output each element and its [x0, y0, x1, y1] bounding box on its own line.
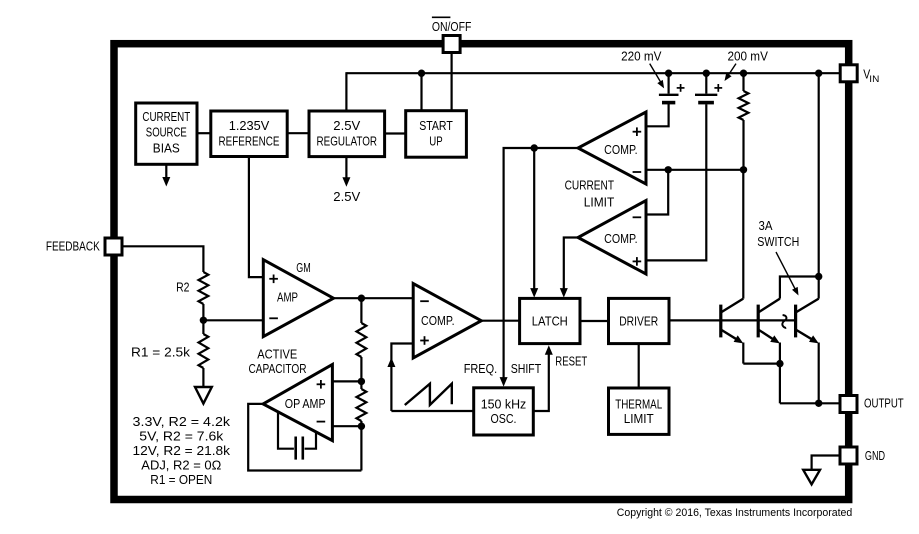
- wire PWM COMP output to LATCH: [481, 320, 519, 322]
- node opamp-minus junction: [358, 423, 365, 430]
- net RESET from OSC to LATCH: [533, 351, 549, 411]
- arrowhead FREQ SHIFT into OSC: [500, 377, 508, 387]
- wire Q1 collector to sense junction: [742, 170, 744, 299]
- svg-text:SOURCE: SOURCE: [146, 126, 187, 140]
- resistor compensation lower: [357, 389, 367, 421]
- wire lower COMP output to LATCH: [564, 238, 578, 292]
- wire rail to sense resistor: [742, 73, 744, 91]
- svg-text:IN: IN: [869, 74, 879, 85]
- svg-text:ON/OFF: ON/OFF: [432, 20, 472, 34]
- callout arrow 220 mV: [650, 64, 662, 84]
- svg-text:220 mV: 220 mV: [621, 49, 662, 63]
- wire 1.235V REFERENCE to 2.5V REGULATOR: [287, 132, 309, 134]
- lower COMP plus input mark: [633, 257, 642, 266]
- wire Q2 collector up and to VIN riser: [780, 277, 819, 299]
- net FREQ SHIFT from current-limit to OSC: [504, 148, 535, 379]
- wire FEEDBACK pin to R2: [122, 246, 203, 272]
- svg-text:OSC.: OSC.: [491, 412, 517, 426]
- svg-text:2.5V: 2.5V: [333, 119, 361, 133]
- svg-text:SHIFT: SHIFT: [511, 362, 542, 376]
- svg-text:COMP.: COMP.: [604, 143, 638, 157]
- arrowhead lower COMP into LATCH: [560, 288, 568, 298]
- svg-text:1.235V: 1.235V: [229, 119, 270, 133]
- svg-text:OP AMP: OP AMP: [285, 397, 326, 411]
- wire Q3 emitter down to output bus: [818, 343, 820, 404]
- wire Q1 emitter down: [742, 343, 744, 364]
- block 1.235V REFERENCE: [211, 111, 287, 157]
- svg-text:ACTIVE: ACTIVE: [257, 348, 297, 362]
- transistor Q2 base bar: [757, 305, 760, 338]
- arrowhead on oscillator ramp wire: [387, 358, 395, 368]
- arrowhead RESET into LATCH: [545, 345, 553, 355]
- block 150 kHz OSC.: [474, 388, 534, 435]
- svg-text:R1 = OPEN: R1 = OPEN: [150, 473, 212, 487]
- wire emitter bus Q1-Q2: [743, 363, 780, 365]
- pin GND (square pad): [840, 447, 857, 464]
- arrowhead upper COMP into LATCH: [530, 288, 538, 298]
- svg-text:CURRENT: CURRENT: [565, 179, 615, 193]
- block LATCH: [520, 298, 580, 343]
- block DRIVER: [609, 298, 670, 343]
- transistor Q1 base bar: [719, 305, 722, 338]
- wire LATCH to DRIVER: [580, 320, 609, 322]
- wire CURRENT SOURCE BIAS to 1.235V REFERENCE: [197, 132, 211, 134]
- svg-text:AMP: AMP: [277, 291, 298, 305]
- PWM COMP plus input mark: [420, 336, 429, 345]
- transistor Q3 base bar: [794, 305, 797, 338]
- svg-text:BIAS: BIAS: [153, 142, 180, 156]
- pin FEEDBACK (square pad): [105, 238, 122, 255]
- junction sense-line at resistor bottom: [740, 166, 747, 173]
- svg-text:SWITCH: SWITCH: [757, 235, 799, 249]
- svg-text:FREQ.: FREQ.: [464, 362, 498, 376]
- junction Q2 collector joins riser: [815, 273, 822, 280]
- wire GM output node down: [360, 298, 362, 323]
- capacitor C right lead: [305, 432, 316, 449]
- svg-text:OUTPUT: OUTPUT: [864, 397, 904, 411]
- lower COMP minus input mark: [633, 216, 642, 218]
- svg-text:DRIVER: DRIVER: [619, 314, 658, 328]
- wire R1 to open arrow: [202, 368, 204, 387]
- op-amp OP AMP (active capacitor): [263, 365, 332, 441]
- junction VIN rail to 220mV source: [665, 70, 672, 77]
- upper COMP plus input mark: [633, 127, 642, 136]
- svg-text:LATCH: LATCH: [532, 314, 568, 328]
- svg-text:5V, R2 = 7.6k: 5V, R2 = 7.6k: [139, 430, 224, 444]
- wire R2 to node FB-divider: [202, 304, 204, 320]
- pin ON/OFF (square pad): [443, 36, 460, 53]
- net OUTPUT bus to OUTPUT pin: [780, 402, 840, 404]
- junction VIN rail to sense resistor: [740, 70, 747, 77]
- upper COMP minus input mark: [633, 171, 642, 173]
- svg-text:LIMIT: LIMIT: [584, 195, 615, 209]
- svg-text:3A: 3A: [759, 219, 774, 233]
- wire to node opamp-minus: [360, 421, 362, 426]
- wire GM AMP output to PWM comparator: [334, 297, 414, 299]
- junction VIN rail to 200mV source: [703, 70, 710, 77]
- callout arrow 3A SWITCH to Q3: [776, 252, 796, 291]
- svg-text:UP: UP: [429, 135, 442, 149]
- capacitor C active-cap left lead: [278, 411, 294, 449]
- wire 1.235V REFERENCE to GM AMP non-inverting input: [249, 157, 263, 278]
- junction emitter bus at Q2: [776, 360, 783, 367]
- node GM-output junction: [358, 295, 365, 302]
- arrow down from CURRENT SOURCE BIAS: [165, 164, 167, 178]
- pin VIN (square pad): [840, 65, 857, 82]
- wire Q3 collector riser to VIN rail: [818, 73, 820, 298]
- block 2.5V REGULATOR: [309, 111, 385, 157]
- junction VIN rail at Q3 riser: [815, 70, 822, 77]
- wire PWM COMP plus input from oscillator: [391, 344, 413, 412]
- comparator PWM COMP: [413, 284, 481, 359]
- node FB-divider junction: [200, 317, 207, 324]
- IC boundary frame: [114, 44, 849, 500]
- comparator current-limit COMP lower: [578, 201, 646, 275]
- wire ON/OFF pin to START UP: [451, 53, 453, 111]
- resistor compensation upper: [357, 323, 367, 357]
- block CURRENT SOURCE BIAS: [136, 103, 197, 164]
- svg-text:2.5V: 2.5V: [333, 190, 361, 204]
- svg-text:3.3V, R2 = 4.2k: 3.3V, R2 = 4.2k: [133, 415, 231, 429]
- pin OUTPUT (square pad): [840, 396, 857, 413]
- svg-text:R2: R2: [176, 280, 189, 294]
- wire OP AMP output feedback loop: [248, 404, 361, 471]
- net VIN rail: [346, 72, 841, 74]
- wire to node opamp-plus: [360, 357, 362, 381]
- wire node to lower resistor: [360, 381, 362, 389]
- svg-text:CURRENT: CURRENT: [142, 110, 190, 124]
- wire sense resistor to junction: [742, 120, 744, 170]
- node upper-COMP-output junction: [531, 144, 538, 151]
- GM AMP plus input mark: [269, 275, 278, 284]
- svg-text:CAPACITOR: CAPACITOR: [249, 362, 307, 376]
- transistor Q3 emitter: [796, 330, 815, 342]
- svg-text:12V, R2 = 21.8k: 12V, R2 = 21.8k: [133, 444, 231, 458]
- callout arrow 200 mV: [728, 64, 737, 77]
- open arrow termination below R1: [195, 387, 212, 404]
- wire upper COMP plus input to 220mV source: [646, 105, 669, 127]
- voltage source 220 mV: [667, 73, 669, 93]
- svg-text:LIMIT: LIMIT: [624, 412, 654, 426]
- wire upper COMP output to LATCH: [533, 148, 535, 291]
- svg-text:REGULATOR: REGULATOR: [317, 135, 378, 149]
- wire GND pin to ground symbol: [812, 456, 840, 470]
- plus mark 200mV source: [714, 84, 722, 92]
- GM AMP minus input mark: [269, 317, 278, 319]
- OP AMP plus input mark: [317, 380, 326, 389]
- node opamp-plus junction: [358, 378, 365, 385]
- op-amp GM AMP: [263, 260, 333, 337]
- wire DRIVER to THERMAL LIMIT: [638, 344, 640, 388]
- sawtooth ramp waveform: [405, 384, 452, 405]
- resistor R1: [199, 334, 209, 368]
- junction OUTPUT bus at Q3 emitter: [815, 400, 822, 407]
- wire 2.5V REGULATOR to START UP: [385, 132, 406, 134]
- wire lower COMP plus input to 200mV source: [646, 104, 706, 260]
- svg-text:150 kHz: 150 kHz: [481, 397, 527, 411]
- wire OP AMP minus input: [332, 425, 361, 427]
- svg-text:RESET: RESET: [555, 355, 587, 369]
- comparator current-limit COMP upper: [578, 112, 646, 184]
- junction sense-line at 668: [665, 166, 672, 173]
- svg-text:R1 = 2.5k: R1 = 2.5k: [131, 345, 191, 359]
- PWM COMP minus input mark: [420, 300, 429, 302]
- OP AMP minus input mark: [317, 421, 326, 423]
- block THERMAL LIMIT: [609, 388, 670, 434]
- wire node to R1: [202, 320, 204, 334]
- svg-text:GM: GM: [296, 261, 311, 275]
- svg-text:THERMAL: THERMAL: [615, 397, 662, 411]
- transistor Q2 emitter: [758, 330, 776, 342]
- svg-text:200 mV: 200 mV: [728, 49, 769, 63]
- transistor Q1 emitter: [721, 330, 740, 342]
- ellipsis squiggle between Q2 and Q3: [782, 315, 786, 328]
- wire emitter bus down: [779, 364, 781, 404]
- svg-text:START: START: [419, 119, 453, 133]
- block START UP: [406, 111, 467, 158]
- transistor Q3 collector: [796, 299, 819, 313]
- plus mark 220mV source: [677, 84, 685, 92]
- wire node to GM AMP inverting input: [203, 319, 263, 321]
- svg-text:ADJ, R2 = 0Ω: ADJ, R2 = 0Ω: [141, 459, 221, 473]
- wire 2.5V REGULATOR output down: [345, 157, 347, 179]
- transistor Q1 collector: [721, 299, 744, 313]
- svg-text:GND: GND: [865, 449, 885, 463]
- svg-text:COMP.: COMP.: [421, 314, 455, 328]
- voltage source 200 mV: [705, 73, 707, 93]
- ground symbol: [803, 470, 820, 485]
- capacitor C plates: [294, 437, 297, 460]
- wire Q2 emitter down: [779, 343, 781, 364]
- wire upper COMP output: [534, 147, 578, 149]
- svg-text:REFERENCE: REFERENCE: [219, 135, 280, 149]
- net current-sense to upper COMP minus input: [646, 169, 744, 171]
- resistor R2: [199, 272, 209, 304]
- resistor current-sense: [739, 91, 749, 120]
- svg-text:Copyright © 2016, Texas Instru: Copyright © 2016, Texas Instruments Inco…: [617, 507, 853, 519]
- svg-text:COMP.: COMP.: [604, 232, 638, 246]
- wire junction to lower COMP minus input: [646, 170, 668, 215]
- svg-text:FEEDBACK: FEEDBACK: [46, 240, 100, 254]
- junction VIN-rail to START UP: [418, 70, 425, 77]
- wire node opamp-minus down to feedback loop: [360, 426, 362, 470]
- transistor Q2 collector: [758, 299, 780, 313]
- wire DRIVER output to transistor bases: [669, 319, 796, 321]
- wire oscillator output to OSC box: [391, 410, 473, 412]
- wire OP AMP plus input: [332, 380, 361, 382]
